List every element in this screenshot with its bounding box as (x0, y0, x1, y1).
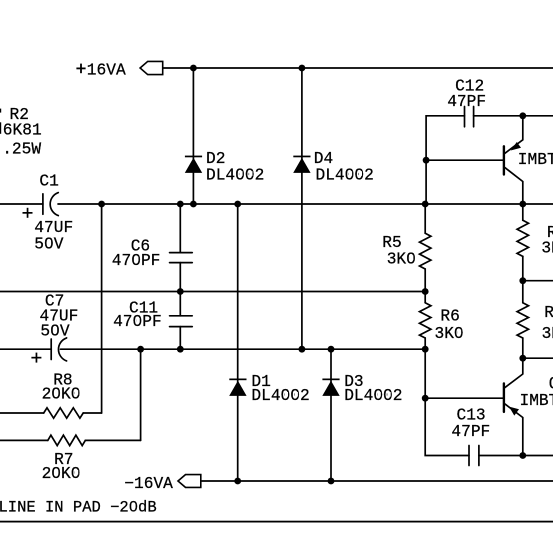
svg-text:16VA: 16VA (87, 61, 126, 79)
connector +16VA flag (140, 61, 163, 74)
svg-text:DL4002: DL4002 (251, 387, 309, 405)
junction C12 / Q1 emitter node (519, 112, 526, 119)
wire C13 loop (425, 398, 469, 455)
junction R6 / C7 net (422, 346, 429, 353)
wire base Q lower (425, 397, 503, 399)
wire -16VA rail (202, 480, 553, 482)
wire R5 stubs (424, 204, 426, 233)
junction D3 / C7 net (328, 346, 335, 353)
junction C11 / C7 net (177, 346, 184, 353)
wire R6 stubs (424, 292, 426, 303)
sheet border line (0, 521, 553, 523)
junction C13 / Q2 emitter node (519, 452, 526, 459)
wire C13 right (479, 455, 553, 457)
capacitor C1 symbol (42, 194, 44, 215)
svg-text:47PF: 47PF (451, 423, 490, 441)
wire left column lower (424, 349, 426, 398)
wire right node 281 (523, 280, 553, 282)
junction D3 / -16VA rail (328, 478, 335, 485)
diode D4 (293, 158, 310, 173)
svg-text:R6: R6 (440, 308, 459, 326)
capacitor C11 symbol (170, 315, 193, 317)
junction R7 riser / C7 net (137, 346, 144, 353)
junction Q1 base tee (423, 157, 430, 164)
wire right resistor lower stubs (522, 281, 524, 303)
transistor Q upper emitter arrow (511, 142, 521, 151)
wire middle net (0, 291, 425, 293)
svg-text:IMBT3906: IMBT3906 (518, 151, 553, 169)
wire upper emitter (505, 116, 523, 154)
junction C6-C11 / middle net (177, 288, 184, 295)
capacitor C1 plus sign (23, 212, 33, 214)
wire base Q upper (426, 159, 503, 161)
svg-text:DL4002: DL4002 (316, 166, 374, 184)
junction R8 riser / main net (98, 201, 105, 208)
svg-text:DL4002: DL4002 (206, 166, 264, 184)
wire lower emitter (505, 404, 523, 456)
capacitor C7 symbol (50, 339, 52, 360)
wire D1 branch (237, 204, 239, 481)
transistor Q lower bar (503, 383, 505, 412)
diode D2 (185, 158, 202, 173)
wire R8 riser (101, 204, 103, 413)
wire C12 riser and loop (426, 116, 464, 204)
capacitor C7 plus sign (31, 357, 41, 359)
wire D2 branch (192, 68, 194, 204)
wire D4 branch (301, 68, 303, 349)
wire C12 right to emitter node (474, 115, 553, 117)
resistor R7 (48, 435, 86, 445)
left edge text fragments (0, 109, 1, 113)
wire D3 branch (330, 349, 332, 481)
wire main net left of C1 (0, 203, 43, 205)
junction D2 / main net (190, 201, 197, 208)
svg-text:Q4: Q4 (549, 375, 553, 393)
junction R5-R6 / middle net (422, 288, 429, 295)
wire main net (C1 right to edge) (58, 203, 553, 205)
svg-text:DL4002: DL4002 (344, 387, 402, 405)
svg-text:IMBT3906: IMBT3906 (520, 392, 553, 410)
junction C6 / main net (177, 201, 184, 208)
wire +16VA rail (163, 67, 553, 69)
capacitor C13 symbol (468, 446, 470, 466)
resistor R8 (44, 408, 83, 418)
svg-text:3K0: 3K0 (541, 239, 553, 257)
wire C7 net right of C7 (61, 348, 426, 350)
capacitor C12 symbol (464, 107, 466, 127)
svg-text:.25W: .25W (2, 140, 41, 158)
junction Q1 collector / main net (519, 201, 526, 208)
capacitor C6 symbol (170, 252, 193, 254)
svg-text:C1: C1 (39, 172, 58, 190)
wire R7 horizontal (0, 439, 48, 441)
wire C7 net left of C7 (0, 348, 51, 350)
resistor R9 right upper (517, 220, 528, 256)
junction right resistors node B (519, 355, 526, 362)
wire C6 branch (179, 204, 181, 253)
wire C11 branch (179, 292, 181, 316)
svg-text:47PF: 47PF (447, 93, 486, 111)
junction R5 / main net (422, 201, 429, 208)
junction D1 / main net (234, 201, 241, 208)
svg-text:R5: R5 (382, 234, 401, 252)
junction D1 / -16VA rail (234, 478, 241, 485)
connector -16VA flag (178, 475, 201, 488)
transistor Q lower emitter arrow (509, 407, 519, 416)
svg-text:6K81: 6K81 (3, 121, 42, 139)
svg-text:−16VA: −16VA (124, 475, 173, 493)
svg-text:20K0: 20K0 (42, 385, 81, 403)
resistor R6 (420, 303, 431, 338)
wire R7 riser (140, 349, 142, 440)
junction Q2 base tee (422, 395, 429, 402)
svg-text:C13: C13 (457, 406, 486, 424)
diode D1 (229, 381, 246, 396)
zero glyph dot patches (48, 171, 462, 508)
svg-text:47UF: 47UF (34, 219, 73, 237)
svg-text:R1: R1 (544, 304, 553, 322)
resistor R1 right lower (517, 303, 528, 338)
resistor R5 (420, 233, 431, 269)
wire right resistor upper stubs (522, 204, 524, 220)
junction right resistors node A (519, 277, 526, 284)
junction D4 / +16VA rail (299, 65, 306, 72)
diode D3 (322, 381, 339, 396)
wire R8 horizontal (0, 412, 44, 414)
wire lower collector (505, 358, 523, 387)
svg-text:20K0: 20K0 (42, 465, 81, 483)
label +16VA plus sign (76, 68, 85, 70)
svg-text:3K0: 3K0 (542, 325, 553, 343)
wire upper collector (505, 168, 523, 204)
wire right node 358 (523, 357, 553, 359)
junction D4 / C7 net (299, 346, 306, 353)
junction D2 / +16VA rail (190, 65, 197, 72)
transistor Q upper bar (503, 146, 505, 174)
